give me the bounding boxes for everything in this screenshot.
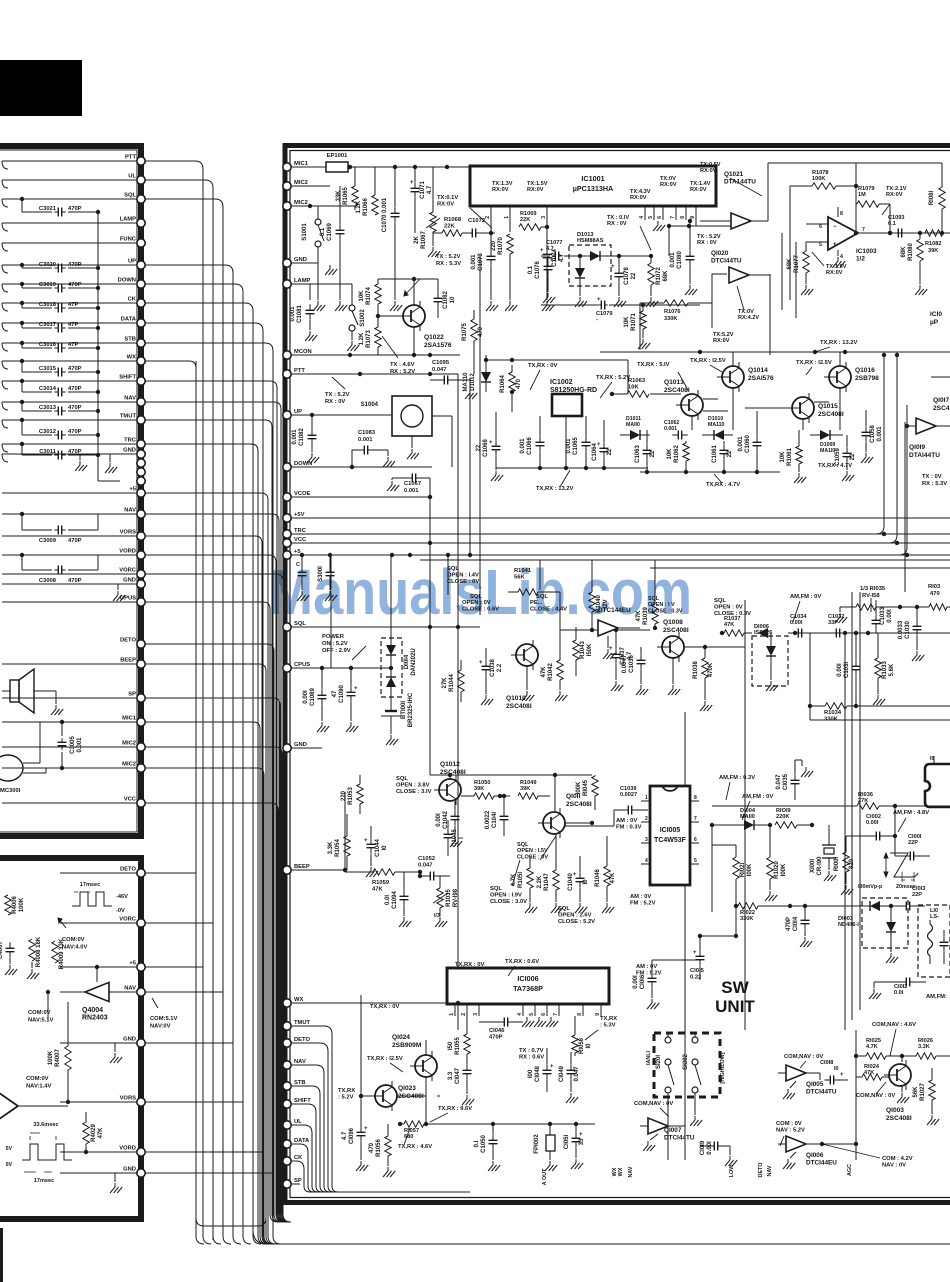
svg-text:R1072: R1072 bbox=[656, 267, 662, 285]
svg-text:I0: I0 bbox=[583, 879, 589, 885]
svg-text:0.I: 0.I bbox=[474, 1140, 480, 1147]
resistor R1045 100K bbox=[576, 775, 598, 810]
wire (left pin feed) bbox=[145, 803, 286, 1222]
capacitor C1012 0.01 bbox=[880, 978, 926, 997]
svg-text:MIC2: MIC2 bbox=[294, 180, 308, 186]
svg-text:0.00I: 0.00I bbox=[303, 690, 309, 704]
left box pin TRC bbox=[124, 438, 145, 449]
transistor Q1011 2SC4081 bbox=[538, 793, 592, 838]
svg-text:RIOI9: RIOI9 bbox=[776, 808, 791, 814]
svg-text:R4007: R4007 bbox=[55, 1049, 61, 1067]
ground (C1080) bbox=[685, 285, 697, 295]
capacitor C1041 0.0022 bbox=[485, 794, 509, 836]
capacitor C3008 470P bbox=[20, 553, 98, 584]
wire DETO (nav box) bbox=[60, 872, 137, 874]
diode D1013 HSM88AS bbox=[564, 232, 621, 296]
left box pin SQL bbox=[124, 193, 145, 204]
capacitor C1035 0.047 bbox=[776, 760, 800, 800]
capacitor C1063 22 bbox=[635, 430, 656, 472]
ground (nav GND2) bbox=[110, 1173, 122, 1193]
label A OUT bbox=[542, 1168, 548, 1185]
svg-text:3: 3 bbox=[541, 216, 547, 219]
ground (S1004) bbox=[407, 436, 419, 459]
ground (C1058) bbox=[861, 453, 873, 463]
ground (R1070) bbox=[505, 254, 517, 311]
svg-text:10K: 10K bbox=[780, 451, 786, 463]
wire MIC2 (left box) bbox=[2, 746, 137, 748]
wire FUNC (left box) bbox=[2, 243, 137, 251]
capacitor C1039 0.0027 bbox=[614, 786, 648, 815]
wire transistor row bottom bbox=[640, 470, 780, 474]
transistor Q1006 DTC144EU bbox=[778, 1136, 837, 1167]
ground (C1091) bbox=[297, 591, 309, 601]
svg-text:33K: 33K bbox=[336, 190, 342, 202]
ground (C1076) bbox=[543, 293, 555, 303]
rail SQL bbox=[292, 625, 480, 629]
left connector box J3001 outline bbox=[0, 146, 141, 836]
svg-text:47K: 47K bbox=[636, 610, 642, 622]
svg-text:C3017: C3017 bbox=[39, 322, 56, 328]
svg-text:VCC: VCC bbox=[294, 537, 307, 543]
ground (C1042) bbox=[450, 837, 462, 847]
wire q1011 out bbox=[565, 810, 614, 826]
svg-text:C1073: C1073 bbox=[478, 253, 484, 271]
svg-text:0.001: 0.001 bbox=[404, 488, 419, 494]
svg-text:SQL: SQL bbox=[517, 842, 529, 848]
pot R1067 2K bbox=[414, 167, 440, 249]
svg-text:22: 22 bbox=[650, 450, 656, 457]
svg-text:470P: 470P bbox=[68, 366, 82, 372]
resistor R1073 1.2K bbox=[359, 314, 381, 355]
svg-text:+5V: +5V bbox=[294, 512, 305, 518]
svg-text:QI007: QI007 bbox=[664, 1127, 682, 1134]
svg-text:I00K: I00K bbox=[747, 863, 753, 876]
ground (C1081) bbox=[305, 331, 317, 341]
svg-text:CI048: CI048 bbox=[535, 1065, 541, 1082]
svg-text:4: 4 bbox=[517, 1013, 523, 1016]
capacitor C1083 0.001 bbox=[352, 430, 388, 467]
annotation SQL OPEN (right) bbox=[648, 596, 683, 614]
svg-text:TA7368P: TA7368P bbox=[513, 984, 543, 993]
svg-text:470: 470 bbox=[930, 591, 940, 597]
annotation TX,RX:13.2V (IC1002) bbox=[536, 470, 574, 492]
svg-text:DTCI44EU: DTCI44EU bbox=[806, 1160, 837, 1167]
bus vertical (x685) bbox=[684, 712, 686, 1160]
svg-text:22: 22 bbox=[727, 450, 733, 457]
annotation TX:2.1V RX:0V bbox=[882, 186, 907, 215]
svg-text:COM:0V: COM:0V bbox=[28, 1010, 51, 1016]
svg-text:R4029: R4029 bbox=[91, 1124, 97, 1142]
capacitor C1058 0.001 bbox=[862, 410, 884, 452]
rail aux2 bbox=[650, 567, 950, 569]
main box pin +5 bbox=[283, 549, 302, 559]
annotation SQL OPEN:N 1V bbox=[0, 0, 1, 1]
svg-text:22: 22 bbox=[607, 448, 613, 455]
ground (left box GND2) bbox=[113, 584, 125, 601]
svg-text:TX,RX: TX,RX bbox=[600, 1016, 617, 1022]
svg-text:MC300I: MC300I bbox=[0, 788, 21, 794]
svg-text:NAV: NAV bbox=[294, 1059, 306, 1065]
svg-text:0.0047: 0.0047 bbox=[622, 654, 628, 673]
transistor Q1013 2SC4081 bbox=[664, 372, 703, 420]
wire DETO (nav box to bus) bbox=[145, 872, 196, 874]
svg-text:RX : 5.3V: RX : 5.3V bbox=[922, 481, 947, 487]
wire GND (nav box) bbox=[60, 1042, 137, 1044]
junctions on +5 rail bbox=[390, 541, 472, 557]
capacitor C1078 22 bbox=[611, 256, 637, 296]
switch S1004 bbox=[361, 396, 452, 436]
left box pin VORD bbox=[119, 549, 145, 560]
capacitor C1092 (rail drop) bbox=[318, 553, 335, 590]
annotation TX:0.5V RX:0V bbox=[700, 162, 762, 196]
wire (left pin to bus) bbox=[145, 343, 273, 351]
wire VORS (left box) bbox=[2, 535, 137, 537]
resistor R1034 330K bbox=[808, 633, 858, 723]
ground (D1003) bbox=[886, 953, 898, 963]
transistor Q1021 DTA144TU bbox=[700, 171, 768, 229]
rail VCC bbox=[292, 542, 950, 544]
capacitor C1077 4.7 bbox=[546, 240, 562, 264]
annotation 33.6msec bbox=[30, 1122, 59, 1140]
svg-text:OPEN : 3.8V: OPEN : 3.8V bbox=[396, 783, 430, 789]
svg-text:DI004: DI004 bbox=[740, 808, 756, 814]
rail BEEP bbox=[292, 869, 345, 871]
wire (left pin feed) bbox=[145, 555, 284, 1222]
wire (left pin feed) bbox=[145, 747, 290, 1222]
svg-text:47K: 47K bbox=[610, 872, 616, 884]
annotation COM,NAV:0V (q1003) bbox=[856, 1082, 895, 1099]
svg-text:SHIFT: SHIFT bbox=[119, 375, 136, 381]
svg-text:R1038: R1038 bbox=[693, 661, 699, 679]
capacitor C3011 470P bbox=[20, 442, 100, 460]
svg-text:TX:1.4V: TX:1.4V bbox=[690, 181, 711, 187]
op-amp IC1003 1/2 bbox=[806, 207, 880, 263]
annotation AM:0V FM:5.2V bbox=[630, 894, 656, 907]
wire WX (left box) bbox=[2, 361, 137, 369]
svg-text:17msec: 17msec bbox=[80, 882, 101, 888]
svg-text:R4006: R4006 bbox=[12, 896, 18, 914]
svg-text:TX:0V: TX:0V bbox=[660, 176, 676, 182]
resistor R4029 47K bbox=[83, 1112, 104, 1154]
wire ic1005 out bbox=[700, 912, 738, 938]
wire VCC (left box) bbox=[2, 802, 137, 804]
svg-text:FPI002: FPI002 bbox=[534, 1134, 540, 1154]
svg-text:LAMP: LAMP bbox=[294, 278, 311, 284]
svg-text:R1071: R1071 bbox=[631, 313, 637, 331]
svg-text:MIC2: MIC2 bbox=[122, 762, 136, 768]
capacitor C1013 22P bbox=[830, 886, 925, 911]
svg-text:QI020: QI020 bbox=[711, 250, 729, 257]
svg-text:1: 1 bbox=[504, 216, 510, 219]
ground (C1047) bbox=[462, 1095, 474, 1105]
transistor Q1003 2SC4081 bbox=[884, 1060, 912, 1122]
svg-text:RV-I98: RV-I98 bbox=[453, 888, 459, 907]
svg-text:TX:1.3V: TX:1.3V bbox=[492, 181, 513, 187]
ground (Q1005) bbox=[783, 1081, 796, 1099]
resistor R1049 39K bbox=[518, 780, 550, 799]
svg-text:Q1014: Q1014 bbox=[748, 367, 768, 374]
svg-text:1/2: 1/2 bbox=[856, 256, 865, 263]
resistor R1055 150 bbox=[448, 1016, 470, 1064]
capacitor C3020 470P bbox=[20, 262, 100, 273]
feedback rect (q1020 loop) bbox=[640, 274, 770, 355]
svg-text:DTC144EU: DTC144EU bbox=[598, 607, 631, 614]
wire UP (left box) bbox=[2, 265, 137, 273]
ground (C1089) bbox=[317, 722, 329, 732]
resistor R1039 47K bbox=[636, 560, 658, 630]
ground (R1042) bbox=[555, 691, 567, 701]
ground (R1047) bbox=[551, 903, 563, 913]
annotation POWER bbox=[322, 634, 366, 660]
wire beep/row verticals bbox=[343, 792, 347, 872]
annotation TX,RX:12.5V (q1024) bbox=[367, 1056, 403, 1072]
svg-text:NAV:4.0V: NAV:4.0V bbox=[62, 945, 87, 951]
transistor Q1005 DTC144TU bbox=[778, 1065, 837, 1096]
capacitor C1095 0.047 bbox=[428, 360, 470, 385]
svg-text:+: + bbox=[364, 1126, 368, 1132]
tuned circuit L1001 LS-3 bbox=[918, 905, 950, 977]
annotation TX,RX:0V (IC1002) bbox=[528, 363, 557, 390]
svg-text:µP: µP bbox=[930, 319, 939, 326]
resistor R1053 220 bbox=[341, 775, 363, 814]
svg-text:470P: 470P bbox=[68, 405, 82, 411]
ground (Q1003) bbox=[897, 1093, 909, 1103]
svg-text:+: + bbox=[540, 248, 544, 254]
svg-text:330K: 330K bbox=[664, 316, 677, 322]
wire VORC (nav box to bus) bbox=[145, 923, 213, 1240]
bus riser 2 (x253) bbox=[252, 444, 254, 1230]
wire r1034 row bbox=[810, 706, 950, 720]
svg-text:IC1001: IC1001 bbox=[581, 174, 604, 183]
left box pin LAMP bbox=[120, 217, 146, 228]
ground (R1071) bbox=[638, 339, 650, 349]
ground (C1044) bbox=[366, 867, 378, 877]
annotation AGC wire bbox=[822, 1030, 858, 1160]
ground (C4007) bbox=[5, 958, 17, 975]
ground (R1046) bbox=[602, 903, 614, 913]
svg-text:R1054: R1054 bbox=[335, 839, 341, 857]
ground (C1074) bbox=[542, 264, 554, 311]
svg-text:C1070 0.001: C1070 0.001 bbox=[382, 197, 388, 232]
svg-text:VORS: VORS bbox=[120, 1096, 137, 1102]
annotation TX,RX:5.2V (q1023) bbox=[338, 1088, 355, 1101]
resistor R1068 22K bbox=[433, 217, 468, 236]
svg-text:+: + bbox=[573, 872, 577, 878]
svg-text:MA110: MA110 bbox=[708, 422, 725, 428]
wire PTT (left box) bbox=[2, 161, 137, 169]
left box pin DATA bbox=[121, 317, 145, 328]
resistor R1057 680 bbox=[398, 1121, 440, 1140]
svg-text:+: + bbox=[550, 258, 554, 264]
wire (left pin feed) bbox=[145, 514, 287, 1222]
svg-text:R1041: R1041 bbox=[514, 568, 532, 574]
svg-text:C1076: C1076 bbox=[535, 261, 541, 279]
svg-text:0V: 0V bbox=[6, 1162, 13, 1168]
wire (left pin to bus) bbox=[145, 161, 203, 169]
annotation TX:5.2V RX:5.3V (Q1022) bbox=[404, 254, 461, 296]
svg-text:SI20I: SI20I bbox=[656, 1055, 662, 1069]
svg-text:0.00I: 0.00I bbox=[707, 1141, 713, 1155]
ground (R1038) bbox=[700, 701, 712, 711]
svg-text:CLOSE : 3.IV: CLOSE : 3.IV bbox=[396, 789, 432, 795]
svg-text:TX,RX: TX,RX bbox=[338, 1088, 355, 1094]
svg-text:2SAI576: 2SAI576 bbox=[748, 375, 774, 382]
annotation AM:0V FM:5.2V (ic1005) bbox=[636, 964, 662, 977]
capacitor C1048 100 bbox=[528, 1048, 554, 1092]
wire SHIFT (left box) bbox=[2, 381, 137, 389]
annotation SQL CLOSE 4.4V bbox=[530, 594, 567, 613]
watermark ManualsLib.com bbox=[268, 556, 692, 628]
svg-text:TX,RX : 13.2V: TX,RX : 13.2V bbox=[820, 340, 858, 346]
wire (left pin feed) bbox=[145, 402, 289, 1222]
bus vertical lines bbox=[203, 169, 281, 1244]
pot 1/3 R1035 RV-15B bbox=[846, 586, 902, 612]
svg-text:C1058: C1058 bbox=[870, 425, 876, 443]
transistor Q1020 DTC144TU bbox=[711, 250, 770, 283]
svg-text:COM : 0V: COM : 0V bbox=[776, 1121, 802, 1127]
sawtooth waveform sketch bbox=[858, 853, 918, 890]
resistor R1021 100K bbox=[712, 825, 753, 912]
wire (left pin feed) bbox=[145, 698, 288, 1222]
svg-text:DTCI44TU: DTCI44TU bbox=[664, 1135, 695, 1142]
svg-text:NAV: NAV bbox=[628, 1166, 634, 1177]
svg-text:BTI00I: BTI00I bbox=[401, 701, 407, 719]
left box pin +5 bbox=[129, 487, 145, 498]
svg-text:AM : 0V: AM : 0V bbox=[630, 894, 651, 900]
svg-text:DETO: DETO bbox=[758, 1163, 764, 1178]
svg-text:R1043: R1043 bbox=[580, 641, 586, 659]
wire VORD (nav box) bbox=[60, 1151, 137, 1153]
capacitor C1073 0.001 bbox=[471, 250, 496, 300]
svg-text:C1059: C1059 bbox=[835, 448, 841, 466]
main box pin DOWN bbox=[283, 461, 313, 471]
IC IC1006 TA7368P bbox=[447, 968, 609, 1004]
transistor Q1017 (partial) bbox=[933, 397, 950, 412]
svg-text:47K: 47K bbox=[724, 622, 734, 628]
svg-text:DOWN: DOWN bbox=[294, 461, 312, 467]
ground (speaker) bbox=[51, 691, 63, 715]
svg-text:+5: +5 bbox=[129, 487, 136, 493]
svg-text:SW: SW bbox=[721, 978, 749, 997]
svg-text:470P: 470P bbox=[68, 386, 82, 392]
nav box pin GND bbox=[123, 1167, 145, 1178]
transistor Q1022 2SA1576 bbox=[398, 301, 452, 349]
main box pin VCOE bbox=[283, 491, 311, 501]
annotation TX,RX:12.5V (q1014) bbox=[690, 358, 726, 372]
svg-text:R1053: R1053 bbox=[348, 787, 354, 805]
svg-text:+: + bbox=[479, 660, 483, 666]
svg-text:4: 4 bbox=[840, 254, 843, 260]
IC partial DIP (right edge) bbox=[925, 756, 950, 807]
svg-text:1.2K: 1.2K bbox=[359, 332, 365, 345]
main box pin UP bbox=[283, 409, 302, 419]
svg-text:: 5.3V: : 5.3V bbox=[600, 1023, 616, 1029]
wire NAV (nav box) bbox=[60, 991, 137, 993]
annotation TX,RX:13.2V (rail) bbox=[815, 340, 858, 352]
left box pin FUNC bbox=[120, 237, 145, 248]
svg-text:RX:0V: RX:0V bbox=[713, 338, 730, 344]
svg-text:0.001: 0.001 bbox=[670, 252, 676, 268]
loop wire q1019 route bbox=[845, 592, 860, 1030]
svg-text:DETO: DETO bbox=[294, 1037, 310, 1043]
resistor R1042 47K bbox=[541, 650, 563, 690]
svg-text:R1063: R1063 bbox=[628, 378, 646, 384]
svg-text:S1002: S1002 bbox=[360, 309, 366, 327]
wire q1013-q1014 bbox=[664, 352, 733, 430]
ground (R1056) bbox=[383, 1167, 395, 1177]
svg-text:GND: GND bbox=[123, 448, 136, 454]
svg-text:C: C bbox=[296, 562, 300, 568]
svg-text:AM : 0V: AM : 0V bbox=[616, 818, 637, 824]
nested loop wires bbox=[782, 186, 796, 318]
main box pin PTT bbox=[283, 368, 306, 378]
svg-text:TX:0.1V: TX:0.1V bbox=[437, 195, 458, 201]
annotation TX,RX:5.1V bbox=[637, 362, 670, 368]
svg-text:1: 1 bbox=[449, 1013, 455, 1016]
svg-text:WX: WX bbox=[294, 997, 303, 1003]
svg-text:RI022: RI022 bbox=[740, 910, 755, 916]
main box pin VCC bbox=[283, 537, 307, 547]
wire (left pin to bus) bbox=[145, 199, 223, 207]
annotation TX,RX:4.7V (row) bbox=[706, 474, 740, 488]
svg-text:0.001: 0.001 bbox=[358, 437, 373, 443]
ground (C1094) bbox=[399, 917, 411, 927]
svg-text:4: 4 bbox=[639, 216, 645, 219]
svg-text:Q1021: Q1021 bbox=[724, 171, 744, 178]
left box pin MIC1 bbox=[122, 716, 145, 727]
capacitor C1094 0.01 bbox=[385, 872, 409, 916]
svg-text:0.047: 0.047 bbox=[432, 367, 447, 373]
svg-text:BEEP: BEEP bbox=[294, 864, 310, 870]
diode D1010 MA110 bbox=[702, 416, 733, 440]
op-amp Q4003 (partial) bbox=[0, 1088, 60, 1124]
capacitor C1065 0.001 bbox=[566, 416, 591, 468]
main box pin NAV bbox=[283, 1059, 306, 1069]
diode D1004 MA110 bbox=[710, 808, 772, 830]
main unit box outline bbox=[285, 146, 950, 1203]
annotation AM,FM:0V (ic1005) bbox=[742, 794, 773, 820]
svg-text:C1081: C1081 bbox=[297, 305, 303, 323]
wire SP (left box) bbox=[2, 697, 137, 699]
ground (C1035) bbox=[795, 760, 813, 777]
svg-text:C3005: C3005 bbox=[70, 736, 76, 754]
wire p9 out bbox=[660, 206, 731, 305]
svg-text:C1077: C1077 bbox=[546, 240, 562, 246]
resistor R1058 10 bbox=[572, 1016, 592, 1056]
wire (left pin to bus) bbox=[145, 284, 243, 292]
svg-text:R1079: R1079 bbox=[858, 186, 874, 192]
bus riser (x196) bbox=[196, 361, 266, 1226]
svg-text:8: 8 bbox=[694, 795, 697, 801]
svg-text:5: 5 bbox=[529, 1013, 535, 1016]
svg-text:CI0I2: CI0I2 bbox=[894, 984, 907, 990]
annotation COM,NAV:0V (q1005) bbox=[784, 1054, 823, 1068]
svg-text:A OUT: A OUT bbox=[542, 1168, 548, 1185]
capacitor C1044 10 bbox=[364, 826, 388, 866]
wire NAV (left box) bbox=[2, 402, 137, 410]
bus vertical (x448) bbox=[447, 555, 449, 595]
annotation TX,RX:5.3V bbox=[585, 1016, 617, 1040]
svg-text:2: 2 bbox=[645, 816, 648, 822]
IC label (right edge) bbox=[930, 311, 942, 326]
svg-text:COM:0V: COM:0V bbox=[62, 937, 85, 943]
resistor R1064 470 bbox=[500, 365, 522, 412]
svg-text:TX : 0.7V: TX : 0.7V bbox=[519, 1048, 544, 1054]
svg-text:PE...: PE... bbox=[530, 600, 543, 606]
svg-text:RX : 0V: RX : 0V bbox=[697, 240, 717, 246]
svg-text:TX,RX : 0.6V: TX,RX : 0.6V bbox=[505, 959, 539, 965]
svg-text:ICI0: ICI0 bbox=[930, 311, 942, 318]
